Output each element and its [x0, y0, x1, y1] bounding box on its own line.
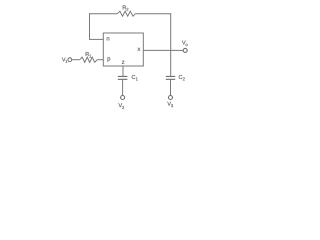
wire top feedback left segment	[90, 13, 118, 15]
wire feedback vertical down-left	[89, 13, 91, 39]
label V1	[62, 58, 67, 63]
wire C1 to terminal	[122, 79, 124, 95]
label V2	[118, 103, 124, 109]
resistor R2	[117, 11, 135, 16]
terminal Vo	[183, 48, 187, 52]
pin label n	[107, 37, 110, 40]
capacitor C1	[118, 76, 128, 79]
wire R1 to p pin	[97, 59, 103, 61]
op-amp block U1	[103, 33, 143, 66]
wire z pin down	[122, 66, 124, 76]
capacitor C2	[166, 76, 175, 79]
terminal V2	[121, 96, 125, 100]
label R2	[123, 6, 129, 11]
label C1	[132, 75, 138, 80]
terminal V1	[68, 58, 72, 62]
wire V1 lead	[72, 59, 80, 61]
wire x output	[143, 49, 183, 51]
wire right vertical bus	[170, 13, 172, 76]
label Vo	[182, 41, 188, 46]
label C2	[179, 75, 185, 80]
pin label z	[122, 61, 124, 64]
pin label p	[108, 57, 111, 61]
wire top feedback right segment	[135, 13, 170, 15]
resistor R1	[80, 57, 98, 62]
wire C2 to terminal	[170, 79, 172, 95]
pin label x	[137, 48, 140, 51]
wire feedback into n pin	[89, 38, 103, 40]
terminal V3	[169, 96, 173, 100]
label V3	[167, 102, 173, 107]
label R1	[86, 52, 92, 57]
